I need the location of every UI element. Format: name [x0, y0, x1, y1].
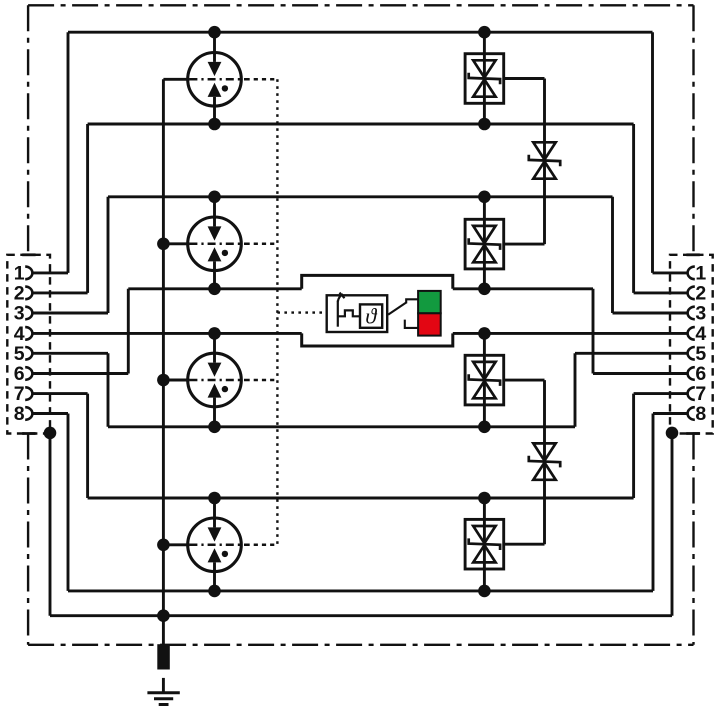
wire: GDT F2 top lead: [213, 197, 216, 219]
wire: shield/earth bus (y=615.7): [50, 614, 672, 617]
junction V2 bottom: [478, 283, 491, 296]
terminal 5 left: pin number: [14, 343, 25, 365]
wire: terminal 8 right dropper: [652, 414, 655, 591]
wire: terminal 1 left riser: [67, 32, 70, 273]
wire: right shield dropper: [671, 433, 674, 616]
wire: terminal 3 right riser: [611, 197, 614, 313]
wire: bus line 6 left of block: [128, 287, 301, 290]
thermal disconnector block outline (lower half): [302, 333, 453, 346]
gas discharge tube F2 (circle with opposed arrows): [188, 217, 242, 271]
wire: GDT F3 top lead: [213, 333, 216, 355]
gas discharge tube F3 (circle with opposed arrows): [188, 353, 242, 407]
wire: suppressor diode V4 through lead: [483, 519, 486, 569]
wire: zener column lower vertical: [543, 380, 546, 544]
svg-text:6: 6: [695, 363, 706, 385]
junction GDT F2 bottom: [208, 283, 221, 296]
svg-text:6: 6: [14, 363, 25, 385]
wire: suppressor diode V1 top lead: [483, 32, 486, 54]
zener diode V6 (bidirectional, lower): [529, 443, 560, 479]
wire: terminal 2 left stub: [32, 291, 87, 294]
disconnect device inner box: [327, 295, 388, 332]
wire: terminal 2 right stub: [634, 291, 688, 294]
junction V2 top: [478, 191, 491, 204]
wire: suppressor diode V2 bottom lead: [483, 269, 486, 289]
wire: terminal 7 right stub: [634, 392, 688, 395]
terminal 4 right: contact arc: [688, 327, 695, 340]
wire: bus line 6 right of block: [453, 287, 593, 290]
zener diode V5 (bidirectional, upper): [529, 142, 560, 178]
wire: terminal 3 left riser: [107, 197, 110, 313]
wire: bus line 3 (y=196.5): [108, 195, 613, 198]
ground symbol bar 3: [159, 703, 169, 706]
wire: terminal 5 right stub: [575, 352, 688, 355]
status switch lever: [388, 299, 418, 314]
red status indicator: [418, 313, 441, 335]
gas discharge tube F4 (circle with opposed arrows): [188, 518, 242, 572]
terminal 1 left: pin number: [14, 263, 25, 285]
terminal 8 left: contact arc: [25, 407, 32, 420]
device boundary frame, right edge upper segment: [692, 5, 694, 255]
temperature sensor box: [360, 304, 382, 327]
wire: terminal 6 left riser: [127, 289, 130, 374]
junction GDT F3 top: [208, 327, 221, 340]
device boundary frame, left edge lower segment: [27, 434, 29, 645]
terminal 8 left: pin number: [14, 403, 25, 425]
wire: suppressor diode V3 top lead: [483, 333, 486, 355]
wire: terminal 8 left stub: [32, 412, 68, 415]
wire: left shield dropper: [49, 433, 52, 616]
terminal 4 right: pin number: [695, 323, 706, 345]
device boundary frame, left edge upper segment: [27, 5, 29, 255]
device boundary frame, bottom edge: [28, 644, 693, 646]
wire: terminal 8 left dropper: [67, 414, 70, 591]
wire: terminal 1 right riser: [651, 32, 654, 273]
wire: terminal 6 right riser: [592, 289, 595, 374]
wire: terminal 5 left dropper: [107, 353, 110, 427]
wire: V1 midpoint to zener column: [504, 77, 545, 80]
ground symbol bar 2: [154, 697, 173, 700]
terminal 2 left: pin number: [14, 283, 25, 305]
wire: terminal 2 right riser: [632, 124, 635, 293]
wire: GDT F2 bottom lead: [213, 269, 216, 289]
wire: GDT F4 bottom lead: [213, 570, 216, 591]
wire: terminal 7 left dropper: [86, 394, 89, 498]
wire: bus line 5 (y=426.8): [108, 425, 575, 428]
terminal 3 left: contact arc: [25, 307, 32, 320]
wire: bus line 7 (y=498): [88, 497, 634, 500]
dash-dot thermal link of GDT F1: [163, 78, 277, 81]
wire: V3 midpoint to zener column: [504, 379, 545, 382]
junction V4 bottom: [478, 585, 491, 598]
svg-text:8: 8: [695, 403, 706, 425]
wire: zener column to V4 midpoint: [504, 543, 545, 546]
suppressor diode V3 (boxed bidirectional zener): [465, 355, 504, 405]
wire: terminal 5 right dropper: [574, 353, 577, 427]
ground stem: [162, 678, 165, 692]
terminal 5 right: contact arc: [688, 347, 695, 360]
terminal 4 left: contact arc: [25, 327, 32, 340]
svg-text:1: 1: [695, 263, 706, 285]
thermal disconnector block outline (upper half): [302, 275, 453, 288]
terminal 2 left: contact arc: [25, 287, 32, 300]
junction GDT F4 top: [208, 492, 221, 505]
wire: terminal 8 right stub: [653, 412, 688, 415]
terminal 8 right: pin number: [695, 403, 706, 425]
status switch lower contact: [405, 320, 418, 328]
terminal 2 right: contact arc: [688, 287, 695, 300]
junction GDT F2 top: [208, 191, 221, 204]
terminal 3 right: contact arc: [688, 307, 695, 320]
wire: suppressor diode V1 through lead: [483, 54, 486, 104]
wire: bus line 4 right of block (to terminal 4 right): [453, 332, 688, 335]
wire: terminal 1 right stub: [653, 271, 688, 274]
wire: terminal 5 left stub: [32, 352, 108, 355]
svg-text:4: 4: [14, 323, 25, 345]
svg-text:7: 7: [14, 383, 25, 405]
svg-text:5: 5: [695, 343, 706, 365]
ground symbol bar 1: [147, 691, 179, 694]
wire: terminal 2 left riser: [86, 124, 89, 293]
right terminal block (dashed box): [670, 255, 713, 434]
theta symbol: [365, 304, 378, 329]
equipotential bonding terminal (solid bar): [157, 644, 170, 669]
wire: suppressor diode V4 top lead: [483, 498, 486, 519]
wire: terminal 3 right stub: [613, 312, 688, 315]
junction GDT F4 bottom: [208, 585, 221, 598]
dotted monitoring line branch into disconnector: [277, 311, 326, 313]
gas discharge tube F1 (circle with opposed arrows): [188, 53, 242, 107]
dotted monitoring line vertical: [276, 79, 278, 545]
terminal 1 right: contact arc: [688, 267, 695, 280]
junction V1 top: [478, 26, 491, 39]
svg-text:8: 8: [14, 403, 25, 425]
wire: bus line 2 (y=124): [88, 123, 634, 126]
svg-text:3: 3: [695, 303, 706, 325]
svg-text:5: 5: [14, 343, 25, 365]
junction right shield contact: [666, 427, 679, 440]
terminal 6 right: pin number: [695, 363, 706, 385]
green status indicator: [418, 291, 441, 313]
svg-text:3: 3: [14, 303, 25, 325]
svg-text:ϑ: ϑ: [365, 304, 378, 329]
suppressor diode V2 (boxed bidirectional zener): [465, 219, 504, 269]
terminal 7 left: pin number: [14, 383, 25, 405]
frame tick at right terminal box top: [686, 253, 699, 256]
terminal 6 left: pin number: [14, 363, 25, 385]
wire: suppressor diode V2 top lead: [483, 197, 486, 220]
svg-text:2: 2: [695, 283, 706, 305]
wire: terminal 6 right stub: [593, 372, 688, 375]
junction GDT F1 top: [208, 26, 221, 39]
terminal 6 right: contact arc: [688, 367, 695, 380]
wire: suppressor diode V1 bottom lead: [483, 103, 486, 124]
terminal 4 left: pin number: [14, 323, 25, 345]
junction GDT F3 bottom: [208, 421, 221, 434]
terminal 8 right: contact arc: [688, 407, 695, 420]
wire: suppressor diode V3 bottom lead: [483, 405, 486, 427]
terminal 5 right: pin number: [695, 343, 706, 365]
wire: GDT F1 top lead: [213, 32, 216, 54]
junction earth bus / shield bus: [157, 609, 170, 622]
terminal 7 right: pin number: [695, 383, 706, 405]
terminal 3 right: pin number: [695, 303, 706, 325]
device boundary frame (dash-dot), top edge: [28, 4, 693, 6]
wire: earth bus vertical: [162, 79, 165, 646]
wire: GDT F4 top lead: [213, 498, 216, 520]
wire: GDT F1 bottom lead: [213, 104, 216, 124]
frame tick at right terminal box bottom: [686, 432, 699, 435]
device boundary frame, right edge lower segment: [692, 434, 694, 645]
wire: GDT F3 bottom lead: [213, 405, 216, 427]
terminal 7 right: contact arc: [688, 387, 695, 400]
suppressor diode V4 (boxed bidirectional zener): [465, 519, 504, 569]
svg-text:7: 7: [695, 383, 706, 405]
dash-dot thermal link of GDT F2: [163, 242, 277, 245]
frame tick at left terminal box bottom: [22, 432, 35, 435]
terminal 6 left: contact arc: [25, 367, 32, 380]
terminal 1 left: contact arc: [25, 267, 32, 280]
wire: zener column upper vertical: [543, 79, 546, 245]
svg-text:4: 4: [695, 323, 706, 345]
wire: terminal 7 left stub: [32, 392, 87, 395]
junction earth bus / F4 link: [157, 539, 170, 552]
dash-dot thermal link of GDT F4: [163, 543, 277, 546]
terminal 3 left: pin number: [14, 303, 25, 325]
junction V1 bottom: [478, 118, 491, 131]
frame tick at left terminal box top: [22, 253, 35, 256]
junction GDT F1 bottom: [208, 118, 221, 131]
terminal 5 left: contact arc: [25, 347, 32, 360]
terminal 1 right: pin number: [695, 263, 706, 285]
suppressor diode V1 (boxed bidirectional zener): [465, 54, 504, 104]
wire: suppressor diode V3 through lead: [483, 355, 486, 405]
wire: terminal 3 left stub: [32, 312, 108, 315]
junction left shield contact: [44, 427, 57, 440]
wire: bus line 1 (y=31.5): [68, 31, 653, 34]
disconnect squiggle (break contact): [338, 293, 360, 327]
wire: terminal 6 left stub: [32, 372, 128, 375]
terminal 7 left: contact arc: [25, 387, 32, 400]
wire: suppressor diode V4 bottom lead: [483, 569, 486, 591]
junction V4 top: [478, 492, 491, 505]
wire: bus line 8 (y=590.9): [68, 589, 653, 592]
junction V3 bottom: [478, 421, 491, 434]
junction V3 top: [478, 327, 491, 340]
junction earth bus / F2 link: [157, 238, 170, 251]
wire: zener column to V2 midpoint: [504, 243, 545, 246]
junction earth bus / F3 link: [157, 374, 170, 387]
wire: bus line 4 left of block (from terminal 4 left): [32, 332, 301, 335]
left terminal block (dashed box): [7, 255, 50, 434]
dash-dot thermal link of GDT F3: [163, 379, 277, 382]
svg-text:2: 2: [14, 283, 25, 305]
wire: suppressor diode V2 through lead: [483, 219, 486, 269]
wire: terminal 7 right dropper: [632, 394, 635, 498]
svg-text:1: 1: [14, 263, 25, 285]
wire: terminal 1 left stub: [32, 271, 68, 274]
terminal 2 right: pin number: [695, 283, 706, 305]
